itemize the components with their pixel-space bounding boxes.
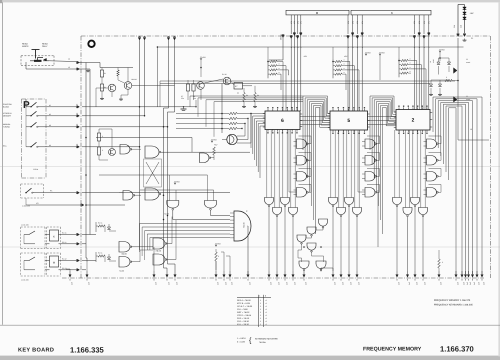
IC U3 [396, 110, 430, 131]
ground on keyboard row [183, 107, 185, 109]
svg-text:TUNING: TUNING [3, 126, 10, 129]
wire bus over U1 [190, 95, 303, 97]
svg-text:1.166.345: 1.166.345 [21, 224, 29, 227]
wire right edge drop [458, 101, 489, 140]
svg-text:KEY BOARD: KEY BOARD [18, 348, 54, 354]
relay K switch box [21, 226, 45, 228]
wire vertical x378 [377, 190, 379, 247]
wire Q2 output to bus [132, 85, 175, 87]
gate 74L10 [365, 188, 375, 198]
gate dome [345, 198, 354, 205]
svg-text:1.166.370: 1.166.370 [440, 345, 474, 354]
wire stubs to bottom connectors [69, 269, 71, 271]
svg-text:MEMO: MEMO [280, 34, 283, 40]
relay MEMO box [234, 83, 243, 90]
switch S6 box [21, 183, 44, 185]
IC U1 [265, 111, 300, 130]
svg-text:11: 11 [466, 58, 468, 61]
svg-text:KILL: KILL [3, 145, 7, 148]
connector bar M [286, 10, 349, 15]
wire vertical bus left [138, 38, 141, 40]
relay K coil [50, 230, 59, 241]
gate dome [411, 198, 420, 205]
wire loop bundle U2-U3 gap [370, 96, 396, 150]
wire keyboard row 3 [39, 126, 77, 128]
gate G13 [119, 242, 130, 253]
+5V to Q3 [200, 57, 202, 60]
gate dome [403, 208, 412, 215]
svg-text:1: 1 [260, 317, 261, 320]
svg-text:3P1: 3P1 [413, 21, 416, 24]
resistor R3 [186, 84, 189, 91]
ground Q1 [101, 97, 103, 99]
svg-text:FREQUENCY MEMORY: FREQUENCY MEMORY [363, 347, 422, 353]
relay K box [47, 226, 61, 228]
wire loop bundle left of U1 [251, 114, 265, 149]
gate G2 [200, 153, 210, 163]
wire bus horizontal A [160, 80, 455, 82]
ground power entry [464, 39, 466, 41]
svg-text:K: K [391, 11, 393, 15]
relay K contact [24, 231, 35, 235]
svg-text:74L00: 74L00 [121, 252, 127, 255]
ground S1 wire [87, 69, 89, 71]
gate G19 [120, 145, 130, 155]
svg-text:1: 1 [259, 295, 260, 298]
ground Q2 [120, 98, 122, 100]
resistor R12 [445, 79, 452, 81]
connector arrows S1 [77, 61, 79, 64]
relay M contact [24, 257, 35, 261]
power rail +5V entry [457, 5, 459, 34]
svg-text:1P1: 1P1 [290, 21, 293, 24]
resistor block keyboard [97, 133, 100, 141]
svg-text:1: 1 [260, 308, 261, 311]
gate 74L10 [365, 156, 375, 166]
wire 74L30 output [247, 226, 250, 274]
relay M box [47, 252, 61, 254]
svg-text:STR D = 74L04: STR D = 74L04 [237, 314, 252, 317]
svg-text:P2 02: P2 02 [62, 267, 66, 270]
resistor R6 [254, 93, 257, 102]
wire horizontal y190 [140, 189, 214, 191]
gate G9 [299, 261, 309, 269]
svg-text:14: 14 [68, 58, 70, 61]
connector pins group 3 [413, 15, 415, 34]
wire FF output [161, 151, 250, 153]
resistor R4 [192, 84, 195, 91]
svg-text:b2: b2 [49, 113, 51, 116]
gate G16 [153, 254, 165, 265]
connector pin power [457, 34, 460, 36]
svg-text:1 = HIGH: 1 = HIGH [237, 337, 246, 340]
wire vertical x222 [221, 84, 223, 134]
wire bus horizontal B [160, 83, 430, 85]
transistor marker 2 [454, 97, 458, 102]
svg-text:74L30: 74L30 [243, 222, 246, 228]
diode D3 [463, 17, 467, 19]
gate 74L10 [297, 139, 307, 149]
svg-text:2: 2 [412, 117, 415, 123]
svg-text:0 = LOW: 0 = LOW [237, 341, 245, 344]
svg-text:10: 10 [470, 128, 472, 131]
gate 74L10 [427, 188, 437, 198]
svg-text:3P3: 3P3 [423, 21, 426, 24]
transistor Q1 [108, 84, 116, 92]
gate U4 74L30 [234, 211, 251, 241]
flip-flop cross coupling [144, 159, 162, 187]
transistor Q2 [124, 82, 132, 90]
svg-text:FREQUENCY MEMORY 1.166.370: FREQUENCY MEMORY 1.166.370 [434, 299, 471, 302]
wire vertical x86 [86, 63, 87, 263]
gate 74L10 [365, 172, 375, 182]
wire keyboard bus [82, 106, 196, 108]
wire loop bundle U1-U2 gap [303, 96, 330, 150]
gate dome [337, 208, 346, 215]
svg-text:READ: READ [22, 43, 28, 46]
svg-text:P5: P5 [50, 190, 52, 193]
wire relay K outputs [45, 234, 50, 236]
diode D6 [429, 84, 432, 86]
wire riser x157 [156, 47, 158, 107]
gate G7 [297, 235, 306, 242]
svg-text:POS = 74L10: POS = 74L10 [237, 317, 250, 320]
truth table [237, 296, 271, 298]
relay M switch box [21, 252, 45, 254]
gate 74L10 [427, 139, 437, 149]
svg-text:120Hz: 120Hz [33, 168, 38, 171]
+5V right [439, 49, 441, 52]
svg-text:MTY B = LOW: MTY B = LOW [237, 302, 250, 305]
ground R5 [243, 105, 245, 107]
svg-text:1: 1 [260, 299, 261, 302]
svg-text:74L05: 74L05 [164, 213, 169, 216]
wire vertical x90 [89, 69, 91, 235]
svg-text:22n: 22n [181, 97, 184, 100]
svg-text:b4: b4 [49, 144, 51, 147]
svg-text:P: P [23, 100, 30, 111]
resistor R10 [213, 147, 216, 155]
svg-text:74L05a: 74L05a [259, 341, 267, 344]
wire horizontal y175 [99, 174, 207, 176]
gate 74L10 [297, 156, 307, 166]
svg-text:C20: C20 [460, 25, 463, 28]
svg-text:P2 01: P2 01 [62, 241, 66, 244]
svg-text:WRT = 74L02: WRT = 74L02 [237, 311, 250, 314]
keyboard box P [22, 98, 47, 100]
ground R6 [254, 105, 256, 107]
gate G5 [319, 219, 328, 226]
svg-text:11: 11 [466, 95, 468, 98]
gate dome [265, 198, 274, 205]
gate 74L10 [427, 156, 437, 166]
+5V Q5 [211, 139, 213, 142]
svg-text:2P1: 2P1 [347, 21, 350, 24]
gate dome [281, 198, 290, 205]
svg-text:KILL = 74L30: KILL = 74L30 [237, 323, 250, 326]
svg-text:1: 1 [260, 305, 261, 308]
junction dots [139, 106, 141, 108]
svg-text:2P3: 2P3 [356, 21, 359, 24]
wire relay M outputs [45, 260, 50, 262]
diode-resistor cluster 2 [98, 255, 105, 257]
diode D5 [447, 62, 450, 64]
+5V RN3 [379, 52, 381, 55]
wire keyboard row 4 [39, 146, 77, 148]
wire keyboard row 2 [39, 115, 77, 117]
gate G17 [123, 191, 133, 201]
gate dome [329, 198, 338, 205]
wire mid [289, 191, 297, 193]
switch S3 [30, 115, 31, 116]
svg-text:RL 01: RL 01 [62, 232, 67, 235]
gate G14 [119, 257, 130, 268]
svg-text:1.166.345: 1.166.345 [21, 279, 29, 282]
wire from S1 to connector [49, 60, 77, 63]
resistor R5 [243, 93, 246, 102]
svg-text:1: 1 [260, 323, 261, 326]
switch S2 [30, 106, 31, 107]
svg-text:3P4: 3P4 [428, 21, 431, 24]
gate dome pair mid [167, 201, 179, 209]
svg-text:6: 6 [281, 118, 284, 124]
resistor network RN2 [332, 60, 334, 79]
transistor Q4 [223, 77, 231, 85]
wire VD [25, 198, 27, 205]
svg-text:K: K [53, 236, 55, 239]
svg-text:1: 1 [260, 311, 261, 314]
svg-text:1.166.335: 1.166.335 [70, 346, 105, 355]
svg-text:b3: b3 [49, 124, 51, 127]
gate 74L10 [427, 172, 437, 182]
relay M coil [50, 256, 59, 267]
switch S5 [30, 146, 31, 147]
connector pins group 2 [347, 15, 349, 34]
svg-text:15: 15 [68, 66, 70, 69]
svg-text:CLK = 7400: CLK = 7400 [237, 308, 249, 311]
wire +5V rail [157, 46, 464, 48]
svg-text:M: M [53, 262, 55, 265]
gate 74L10 [297, 172, 307, 182]
gate dome [393, 198, 402, 205]
wire MEMO BUSY [282, 35, 285, 37]
bottom connector pins [69, 271, 71, 275]
connector pins group 1 [290, 15, 292, 34]
transistor Q3 [197, 82, 205, 90]
svg-text:MEMORY: MEMORY [3, 115, 12, 118]
svg-text:RL 02: RL 02 [62, 258, 67, 261]
transistor Q5 [227, 134, 237, 144]
wire loop bundle right of U3 [433, 97, 482, 274]
svg-text:1: 1 [260, 302, 261, 305]
transistor circuit Q1 Q2 [100, 67, 133, 69]
svg-text:SCLK C = 74L00: SCLK C = 74L00 [237, 305, 253, 308]
resistor network RN3 [398, 59, 400, 78]
svg-text:74L00: 74L00 [119, 270, 124, 273]
svg-text:+5V: +5V [470, 12, 474, 15]
diode D2 [463, 12, 467, 14]
svg-text:BLANK: BLANK [3, 106, 10, 109]
diode D1 [463, 7, 467, 9]
switch S4 [30, 126, 31, 127]
ground D6 [430, 93, 432, 95]
svg-text:FREQUENCY KEYBOARD 1.166.305: FREQUENCY KEYBOARD 1.166.305 [434, 304, 473, 307]
svg-text:WRITE: WRITE [22, 45, 29, 48]
svg-text:1P2: 1P2 [293, 21, 296, 24]
diode D4 [437, 62, 440, 64]
transistor marker 1 [454, 68, 458, 74]
gate dome [419, 208, 428, 215]
svg-text:2P2: 2P2 [351, 21, 354, 24]
svg-text:RES A = 74L00: RES A = 74L00 [237, 299, 252, 302]
switch S6 lever [25, 192, 26, 193]
gate G8 [307, 243, 316, 250]
svg-text:74L00: 74L00 [155, 249, 161, 252]
svg-text:KEYBOARD NETWORK: KEYBOARD NETWORK [255, 338, 278, 341]
switch S1 READ/WRITE box [21, 55, 54, 57]
diode D7 [438, 84, 441, 86]
wire right power vertical [457, 57, 459, 101]
svg-text:RL 98: RL 98 [222, 73, 227, 76]
svg-text:2P4: 2P4 [361, 21, 364, 24]
svg-text:1P3: 1P3 [296, 21, 299, 24]
svg-text:b1: b1 [49, 104, 51, 107]
connector bar K [351, 10, 431, 15]
wire links U1-U2 pins [300, 116, 330, 118]
svg-text:1: 1 [260, 320, 261, 323]
svg-text:C21: C21 [453, 25, 456, 28]
svg-text:0: 0 [265, 295, 266, 298]
transistor Q6 [109, 149, 116, 156]
gate G10 [316, 261, 326, 269]
marker circle [88, 41, 94, 47]
resistor row lines x4 [176, 113, 222, 115]
svg-text:1P4: 1P4 [300, 21, 303, 24]
svg-text:READ: READ [42, 43, 48, 46]
+5V flip-flop [174, 181, 176, 184]
gate dome [273, 208, 282, 215]
gate G15 [153, 238, 165, 249]
flip-flop gate FF1b [145, 188, 159, 200]
+5V R11 [215, 243, 217, 246]
gate dome [353, 208, 362, 215]
resistor R13 [438, 259, 441, 268]
flip-flop gate FF1a [145, 146, 159, 158]
switch S1 lever [35, 50, 37, 59]
+5V RN2 [365, 52, 367, 55]
svg-text:3P2: 3P2 [418, 21, 421, 24]
gate 74L10 [297, 188, 307, 198]
svg-text:ONLY: ONLY [42, 45, 48, 48]
IC U2 [330, 111, 368, 130]
gate dome [289, 208, 298, 215]
svg-text:1: 1 [260, 314, 261, 317]
wire bus into U4 [140, 223, 231, 225]
gate 74L10 [365, 139, 375, 149]
svg-text:5: 5 [347, 118, 350, 124]
diode-resistor cluster 1 [98, 225, 105, 227]
wire keyboard row 1 [39, 106, 77, 108]
resistor R11 [215, 252, 218, 261]
resistor network RN1 [267, 60, 269, 79]
gate G6 [307, 227, 316, 234]
ground D7 [439, 93, 441, 95]
wire horizontal y137 [96, 137, 192, 139]
svg-text:CLR = 74L30: CLR = 74L30 [237, 320, 250, 323]
